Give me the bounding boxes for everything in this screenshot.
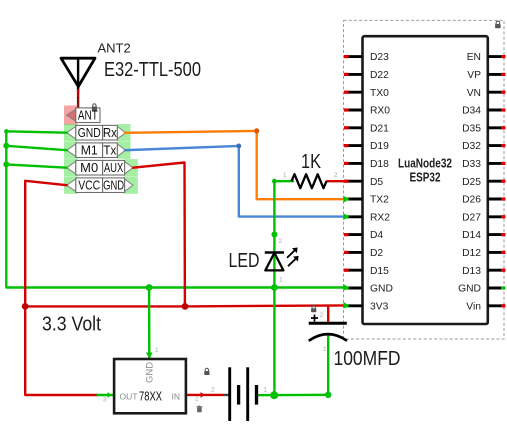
svg-text:D12: D12 xyxy=(462,248,481,259)
svg-text:D25: D25 xyxy=(462,177,481,188)
svg-text:D19: D19 xyxy=(370,141,389,152)
svg-text:ANT2: ANT2 xyxy=(98,41,131,56)
svg-text:D21: D21 xyxy=(370,123,389,134)
svg-text:1: 1 xyxy=(283,172,287,179)
svg-text:E32-TTL-500: E32-TTL-500 xyxy=(104,59,201,81)
svg-text:M1: M1 xyxy=(81,144,98,158)
svg-text:2: 2 xyxy=(334,172,338,179)
svg-text:1: 1 xyxy=(264,387,268,394)
svg-text:AUX: AUX xyxy=(104,161,124,175)
svg-text:GND: GND xyxy=(370,284,393,295)
svg-text:ESP32: ESP32 xyxy=(410,170,441,185)
svg-text:3V3: 3V3 xyxy=(370,301,389,312)
svg-text:RX0: RX0 xyxy=(370,106,390,117)
svg-text:D23: D23 xyxy=(370,52,389,63)
svg-text:D15: D15 xyxy=(370,266,389,277)
svg-text:VCC: VCC xyxy=(78,179,100,193)
svg-text:TX0: TX0 xyxy=(370,88,389,99)
svg-text:100MFD: 100MFD xyxy=(334,348,401,370)
svg-text:IN: IN xyxy=(172,392,181,402)
svg-text:LuaNode32: LuaNode32 xyxy=(398,156,452,171)
svg-text:RX2: RX2 xyxy=(370,212,390,223)
svg-text:3.3 Volt: 3.3 Volt xyxy=(42,314,101,336)
svg-text:2: 2 xyxy=(195,396,199,403)
svg-text:EN: EN xyxy=(467,52,481,63)
svg-text:1: 1 xyxy=(279,277,283,284)
svg-text:GND: GND xyxy=(458,284,481,295)
svg-text:78XX: 78XX xyxy=(139,390,162,404)
svg-text:Vin: Vin xyxy=(466,301,481,312)
svg-text:VN: VN xyxy=(467,88,481,99)
svg-text:D18: D18 xyxy=(370,159,389,170)
svg-text:2: 2 xyxy=(320,312,324,319)
svg-text:ANT: ANT xyxy=(78,109,98,123)
svg-text:D27: D27 xyxy=(462,212,481,223)
svg-text:D35: D35 xyxy=(462,123,481,134)
svg-text:D26: D26 xyxy=(462,195,481,206)
svg-text:Tx: Tx xyxy=(103,144,117,158)
svg-text:1: 1 xyxy=(323,346,327,353)
svg-text:OUT: OUT xyxy=(120,392,138,402)
svg-text:D13: D13 xyxy=(462,266,481,277)
svg-text:1: 1 xyxy=(155,347,159,354)
svg-text:M0: M0 xyxy=(80,161,98,175)
svg-text:D14: D14 xyxy=(462,230,481,241)
svg-text:GND: GND xyxy=(145,362,156,383)
svg-text:D33: D33 xyxy=(462,159,481,170)
svg-text:D5: D5 xyxy=(370,177,383,188)
svg-text:TX2: TX2 xyxy=(370,195,389,206)
svg-text:D34: D34 xyxy=(462,106,481,117)
svg-text:2: 2 xyxy=(211,387,215,394)
svg-text:Rx: Rx xyxy=(103,126,118,140)
svg-text:VP: VP xyxy=(467,70,481,81)
svg-text:GND: GND xyxy=(78,126,101,140)
svg-text:LED: LED xyxy=(229,250,260,272)
svg-text:1K: 1K xyxy=(301,151,322,173)
svg-text:D2: D2 xyxy=(370,248,383,259)
svg-text:D4: D4 xyxy=(370,230,383,241)
svg-text:D32: D32 xyxy=(462,141,481,152)
svg-text:3: 3 xyxy=(103,397,107,404)
svg-text:D22: D22 xyxy=(370,70,389,81)
svg-text:2: 2 xyxy=(279,238,283,245)
svg-text:GND: GND xyxy=(103,179,124,193)
